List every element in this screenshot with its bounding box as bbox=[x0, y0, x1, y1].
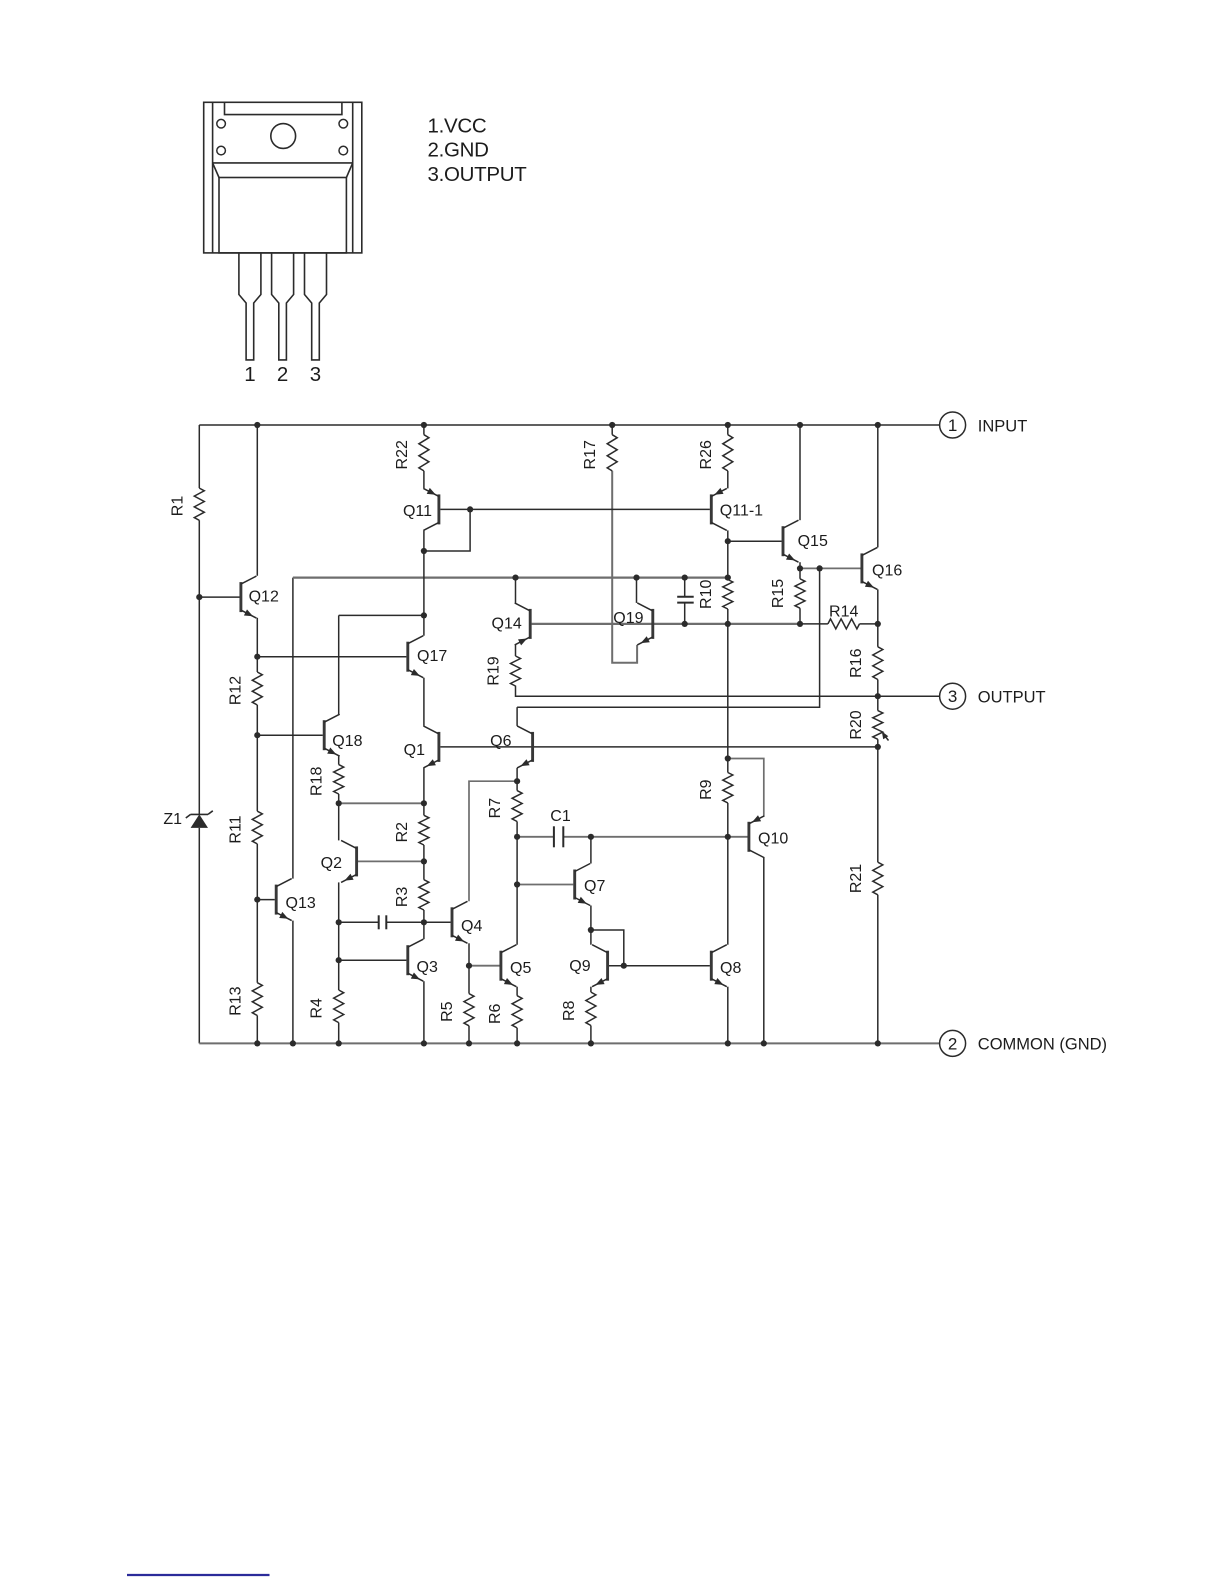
wire: main column tie to Q17 bbox=[423, 551, 425, 615]
wire: Q16 base line bbox=[800, 567, 861, 569]
transistor Q2 bbox=[321, 840, 357, 882]
wire: Q7-Q9 jog bbox=[591, 930, 624, 966]
terminal 1 INPUT bbox=[940, 412, 1028, 438]
svg-text:1: 1 bbox=[948, 416, 957, 435]
resistor R5 bbox=[439, 994, 474, 1026]
IC package outline (TO-220 front view) bbox=[204, 102, 362, 253]
resistor R2 bbox=[394, 815, 429, 845]
svg-text:R7: R7 bbox=[487, 798, 504, 819]
wire: Q7 collector lead bbox=[590, 837, 592, 864]
wire: Miller cap line right bbox=[386, 921, 424, 923]
resistor R14 bbox=[828, 603, 860, 629]
wire: Q14 emitter to R19 bbox=[515, 645, 517, 656]
wire: Q18 collector column bbox=[338, 615, 340, 714]
capacitor C1 bbox=[550, 808, 571, 847]
package lead 2 bbox=[272, 253, 294, 360]
svg-text:3: 3 bbox=[310, 363, 321, 386]
wire: Q2 base line bbox=[358, 860, 424, 862]
svg-text:3: 3 bbox=[948, 687, 957, 706]
svg-text:R2: R2 bbox=[394, 822, 411, 843]
transistor Q1 bbox=[404, 726, 439, 768]
wire: Q8 collector column bbox=[727, 837, 729, 945]
wire: node to Q2 collector bbox=[338, 803, 340, 840]
zener diode Z1 bbox=[163, 811, 212, 828]
wire: left column R1 to Z1 bbox=[198, 520, 200, 814]
transistor Q15 bbox=[783, 520, 828, 562]
svg-text:Q14: Q14 bbox=[492, 616, 522, 633]
svg-text:Q18: Q18 bbox=[332, 733, 362, 750]
wire: R10 bottom to R9 top bbox=[727, 624, 729, 759]
resistor R20 (adjustable) bbox=[848, 710, 889, 740]
wire: Q11-1 collector to Q15 base node bbox=[727, 530, 729, 541]
wire: Q15 emitter to node bbox=[799, 562, 801, 568]
wire: R10 leads bbox=[727, 578, 729, 580]
wire: Q13 collector column bbox=[292, 578, 294, 879]
svg-text:R13: R13 bbox=[227, 986, 244, 1015]
svg-text:R26: R26 bbox=[698, 440, 715, 469]
svg-text:R5: R5 bbox=[439, 1001, 456, 1022]
transistor Q9 bbox=[569, 945, 607, 987]
wire: Q3 base line bbox=[339, 959, 407, 961]
wire: R7 bottom to Q7 base node bbox=[516, 837, 518, 885]
wire: Q2 emitter to cap line bbox=[338, 882, 340, 922]
svg-text:R12: R12 bbox=[227, 676, 244, 705]
wire: R6 bottom lead bbox=[516, 1028, 518, 1044]
svg-text:COMMON (GND): COMMON (GND) bbox=[978, 1035, 1107, 1053]
wire: left column Z1 to ground rail bbox=[198, 828, 200, 1044]
svg-text:C1: C1 bbox=[550, 808, 571, 825]
svg-text:OUTPUT: OUTPUT bbox=[978, 689, 1046, 707]
wire: Q11/Q11-1 base line bbox=[440, 508, 710, 510]
transistor Q18 bbox=[324, 714, 362, 756]
svg-text:Q5: Q5 bbox=[510, 960, 531, 977]
transistor Q12 bbox=[241, 576, 279, 618]
wire: Q9 collector lead bbox=[590, 930, 592, 945]
wire: cap node to Q3 collector bbox=[423, 922, 425, 939]
svg-text:Q1: Q1 bbox=[404, 742, 425, 759]
svg-text:Q12: Q12 bbox=[249, 589, 279, 606]
svg-text:Q8: Q8 bbox=[720, 960, 741, 977]
transistor Q14 bbox=[492, 603, 531, 646]
wire: Q6 collector lead bbox=[516, 707, 518, 726]
svg-text:R15: R15 bbox=[770, 579, 787, 608]
wire: Q16 emitter lead bbox=[877, 589, 879, 624]
svg-text:R16: R16 bbox=[848, 648, 865, 677]
wire: ground rail bbox=[199, 1042, 939, 1044]
wire: R22 top lead bbox=[423, 425, 425, 435]
resistor R1 bbox=[169, 488, 204, 520]
resistor R9 bbox=[698, 773, 733, 803]
wire: long node line (Q12-Q14-Q19-R10 net) bbox=[293, 576, 728, 578]
wire: Q8 emitter to ground bbox=[727, 987, 729, 1044]
wire: Q13 emitter lead bbox=[292, 921, 294, 1044]
wire: Q16 collector lead bbox=[877, 425, 879, 547]
wire: Q12 collector lead bbox=[256, 425, 258, 576]
package lead 1 bbox=[239, 253, 261, 360]
resistor R19 bbox=[486, 656, 521, 686]
capacitor (Miller, unlabeled) bbox=[379, 915, 387, 929]
wire: R21 leads bbox=[877, 747, 879, 862]
svg-text:Q16: Q16 bbox=[872, 563, 902, 580]
terminal 2 COMMON (GND) bbox=[940, 1030, 1107, 1056]
wire: R20 leads bbox=[877, 696, 879, 710]
wire: left column above R1 bbox=[198, 425, 200, 488]
wire: Q14 collector lead bbox=[515, 578, 517, 603]
wire: Miller cap line left bbox=[339, 921, 379, 923]
wire: Q7 base line bbox=[517, 884, 573, 886]
svg-text:R14: R14 bbox=[829, 603, 858, 620]
junction dots bbox=[196, 422, 881, 1047]
transistor Q11 bbox=[403, 488, 439, 531]
svg-text:Q9: Q9 bbox=[569, 958, 590, 975]
resistor R18 bbox=[309, 765, 344, 796]
wire: Q9-Q8 base line bbox=[609, 965, 710, 967]
wire: bypass cap leads bbox=[684, 578, 686, 597]
svg-text:R3: R3 bbox=[394, 887, 411, 908]
wire: Q4 emitter to node bbox=[468, 943, 470, 966]
wire: R18-R2 node link bbox=[339, 802, 424, 804]
wire: Q15 base line bbox=[728, 540, 782, 542]
transistor Q13 bbox=[276, 879, 316, 921]
wire: Q10 base lead bbox=[728, 836, 748, 838]
transistor Q10 bbox=[749, 815, 788, 858]
wire: C1 line right bbox=[563, 836, 591, 838]
svg-text:R18: R18 bbox=[309, 767, 326, 796]
transistor Q8 bbox=[711, 945, 741, 987]
wire: Q3 emitter to ground bbox=[423, 981, 425, 1043]
transistor Q11-1 bbox=[711, 488, 763, 531]
svg-text:2.GND: 2.GND bbox=[428, 139, 489, 162]
transistor Q6 bbox=[490, 726, 532, 768]
wire: Q7 emitter to node bbox=[590, 906, 592, 931]
wire: R13 leads bbox=[256, 900, 258, 983]
wire: R3 to cap node bbox=[423, 910, 425, 922]
wire: R26 to Q11-1 emitter bbox=[727, 471, 729, 489]
svg-text:3.OUTPUT: 3.OUTPUT bbox=[428, 163, 528, 186]
wire: Q18 emitter to R18 bbox=[338, 756, 340, 764]
wire: R12 leads bbox=[256, 657, 258, 672]
transistor Q5 bbox=[501, 945, 532, 987]
svg-text:Z1: Z1 bbox=[163, 811, 182, 828]
svg-text:R9: R9 bbox=[698, 779, 715, 800]
svg-text:R10: R10 bbox=[698, 580, 715, 609]
resistor R15 bbox=[770, 579, 805, 608]
wire: R9 top to Q10 emitter bbox=[728, 759, 764, 816]
wire: R8 bottom lead bbox=[590, 1026, 592, 1044]
resistor R10 bbox=[698, 580, 733, 610]
wire: Q4 collector to Q6 emitter node bbox=[469, 781, 517, 901]
svg-text:Q4: Q4 bbox=[461, 918, 482, 935]
wire: C1 line left bbox=[517, 836, 554, 838]
svg-text:R4: R4 bbox=[309, 998, 326, 1019]
transistor Q4 bbox=[452, 901, 482, 943]
svg-text:Q3: Q3 bbox=[417, 959, 438, 976]
wire: Q6 emitter to node bbox=[516, 768, 518, 781]
package lead 3 bbox=[305, 253, 327, 360]
resistor R26 bbox=[698, 435, 733, 471]
wire: Q1 emitter to R2 bbox=[423, 768, 425, 803]
svg-text:2: 2 bbox=[948, 1034, 957, 1053]
wire: Q5 emitter to R6 bbox=[516, 987, 518, 996]
transistor Q3 bbox=[408, 939, 438, 981]
svg-text:R17: R17 bbox=[582, 440, 599, 469]
wire: Q12 emitter lead bbox=[256, 618, 258, 657]
wire: Q10 collector to ground bbox=[763, 858, 765, 1044]
wire: R14 left lead bbox=[800, 623, 828, 625]
wire: R16 leads bbox=[877, 624, 879, 647]
resistor R4 bbox=[309, 990, 344, 1023]
wire: Q19 collector lead bbox=[636, 578, 638, 603]
wire: Q11 collector to tie dot bbox=[423, 530, 425, 551]
transistor Q19 bbox=[613, 603, 653, 645]
wire: Q17-Q18 collector link bbox=[339, 614, 424, 616]
svg-text:Q13: Q13 bbox=[286, 895, 316, 912]
wire: Q17 emitter to Q1 collector bbox=[423, 678, 425, 726]
wire: Q12 base lead bbox=[199, 596, 239, 598]
svg-text:R11: R11 bbox=[227, 815, 244, 843]
svg-text:INPUT: INPUT bbox=[978, 417, 1028, 435]
wire: C1 line to Q8 collector node bbox=[591, 836, 728, 838]
svg-text:Q7: Q7 bbox=[584, 878, 605, 895]
svg-text:R22: R22 bbox=[394, 440, 411, 469]
wire: Q17 base line bbox=[257, 656, 406, 658]
package mounting hole (large) bbox=[271, 124, 296, 149]
wire: Q1 base line to R20/R21 node bbox=[440, 746, 878, 748]
wire: cap line to Q3 base node bbox=[338, 922, 340, 960]
wire: node to R10 top bbox=[727, 541, 729, 577]
svg-text:R19: R19 bbox=[486, 656, 503, 685]
wire: R11 leads bbox=[256, 735, 258, 811]
resistor R13 bbox=[227, 983, 262, 1016]
resistor R16 bbox=[848, 647, 883, 680]
wire: R4 leads bbox=[338, 960, 340, 990]
svg-text:1: 1 bbox=[244, 363, 255, 386]
pin list text bbox=[428, 114, 528, 186]
wire: Q18 base line bbox=[257, 734, 323, 736]
svg-text:R20: R20 bbox=[848, 710, 865, 739]
svg-text:Q10: Q10 bbox=[758, 831, 788, 848]
wire: R2 to R3 node bbox=[423, 845, 425, 861]
svg-text:2: 2 bbox=[277, 363, 288, 386]
transistor Q17 bbox=[408, 636, 448, 678]
svg-text:Q11-1: Q11-1 bbox=[720, 503, 763, 520]
capacitor (bypass, unlabeled) bbox=[677, 597, 694, 603]
wire: R26 top lead bbox=[727, 425, 729, 435]
wire: Q5 collector column bbox=[516, 885, 518, 945]
terminal 3 OUTPUT bbox=[940, 683, 1046, 709]
svg-text:Q15: Q15 bbox=[798, 533, 828, 550]
wire: Q4-Q5 base line bbox=[469, 965, 500, 967]
wire: Q11 collector-base tie bbox=[424, 509, 470, 551]
wire: OUTPUT rail bbox=[516, 686, 940, 697]
wire: R5 leads bbox=[468, 966, 470, 994]
resistor R11 bbox=[227, 811, 262, 844]
svg-text:Q17: Q17 bbox=[417, 648, 447, 665]
wire: Q14-Q19-R15 base line bbox=[532, 623, 800, 625]
svg-text:Q11: Q11 bbox=[403, 503, 432, 520]
package small mounting holes bbox=[217, 119, 348, 155]
wire: R18 to node bbox=[338, 794, 340, 803]
transistor Q16 bbox=[862, 547, 902, 589]
resistor R21 bbox=[848, 862, 883, 895]
wire: Q15 emitter to Q6 collector link bbox=[517, 568, 820, 707]
resistor R12 bbox=[227, 672, 262, 705]
svg-text:Q19: Q19 bbox=[613, 610, 643, 627]
wire: Q15 collector lead bbox=[799, 425, 801, 520]
footer rule bbox=[127, 1574, 270, 1576]
resistor R6 bbox=[487, 996, 522, 1028]
svg-text:R1: R1 bbox=[169, 496, 186, 517]
resistor R7 bbox=[487, 791, 522, 822]
wire: R22 to Q11 emitter bbox=[423, 471, 425, 489]
svg-text:Q6: Q6 bbox=[490, 733, 511, 750]
wire: Q9 emitter to R8 bbox=[590, 987, 592, 992]
wire: R15 leads bbox=[799, 568, 801, 578]
svg-text:1.VCC: 1.VCC bbox=[428, 114, 487, 137]
wire: R9 leads bbox=[727, 759, 729, 773]
resistor R3 bbox=[394, 880, 429, 910]
wire: top INPUT rail bbox=[199, 424, 939, 426]
transistor Q7 bbox=[575, 864, 606, 906]
wire: R17 column and Q19 emitter jog bbox=[611, 425, 613, 435]
svg-text:R8: R8 bbox=[561, 1000, 578, 1021]
wire: R7 leads bbox=[516, 781, 518, 790]
svg-text:Q2: Q2 bbox=[321, 855, 342, 872]
resistor R8 bbox=[561, 992, 596, 1025]
wire: Q13 base lead bbox=[257, 899, 275, 901]
svg-text:R21: R21 bbox=[848, 864, 865, 893]
resistor R17 bbox=[582, 435, 617, 471]
resistor R22 bbox=[394, 435, 429, 471]
svg-text:R6: R6 bbox=[487, 1003, 504, 1024]
wire: R14 right lead bbox=[860, 623, 878, 625]
